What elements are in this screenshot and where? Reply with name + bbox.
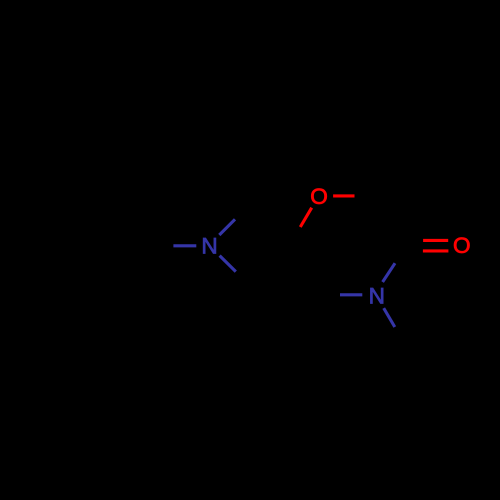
svg-text:N: N	[201, 233, 217, 258]
svg-text:O: O	[453, 233, 471, 258]
svg-text:N: N	[369, 284, 385, 309]
svg-text:O: O	[310, 184, 328, 209]
